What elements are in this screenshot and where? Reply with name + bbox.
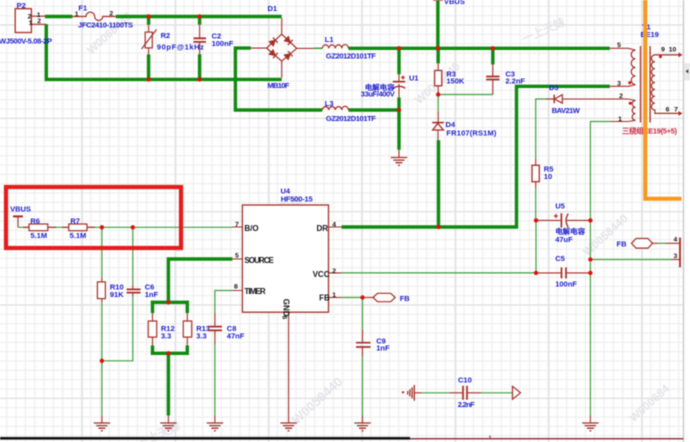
svg-text:33uF/400V: 33uF/400V: [361, 89, 395, 98]
svg-text:1nF: 1nF: [145, 290, 159, 299]
VBUS label top: [433, 0, 465, 6]
svg-text:7: 7: [674, 107, 678, 114]
svg-text:FB: FB: [617, 240, 628, 249]
wire: R3 top stub: [437, 48, 440, 63]
svg-text:4: 4: [332, 222, 336, 229]
wire: R12/R13 bottom bar: [151, 352, 189, 355]
wire: U1 bottom stub: [397, 98, 400, 111]
resistor R3: [435, 63, 465, 94]
junction: FB net / C9: [360, 295, 364, 299]
pin 1 stub: [610, 120, 636, 121]
wire: VBUS symbol stem: [17, 216, 19, 227]
wire: VCC run U4 to C5: [342, 272, 537, 274]
svg-text:P2: P2: [17, 1, 26, 10]
junction: neutral run / C2 bottom: [197, 77, 201, 81]
capacitor C9: [356, 330, 390, 356]
svg-text:HF500-15: HF500-15: [281, 195, 313, 204]
capacitor C2: [194, 25, 234, 55]
wire: VBUS power entry vertical: [436, 0, 439, 48]
svg-text:EE19: EE19: [641, 30, 659, 39]
junction: live rail / C2 top: [197, 14, 201, 18]
svg-text:47nF: 47nF: [227, 331, 245, 340]
wire: F1 to bridge top, with R2/C2 taps: [116, 15, 282, 18]
svg-text:5.1M: 5.1M: [70, 231, 87, 240]
svg-text:MB10F: MB10F: [267, 81, 289, 90]
wire: TIMER to C8: [215, 291, 233, 416]
ground for U4 GND pin: [280, 416, 296, 431]
pin 3 stub: [610, 85, 636, 87]
ground R12/R13: [160, 416, 176, 431]
svg-text:D1: D1: [268, 4, 278, 13]
svg-text:3: 3: [674, 253, 678, 260]
svg-text:9: 9: [661, 47, 665, 54]
svg-text:JFC2410-1100TS: JFC2410-1100TS: [78, 21, 133, 30]
fuse F1: [72, 4, 133, 30]
diode D4: [432, 111, 497, 140]
wire: C6 branch down and over to R10: [102, 227, 133, 360]
wire: R3 bottom to C3 bottom: [438, 94, 493, 96]
svg-text:1: 1: [332, 292, 336, 299]
junction: R10 / C6 bottoms: [100, 359, 104, 363]
resistor R6: [23, 216, 56, 240]
wire: VBUS sense R6 R7 row to U4 B/O: [18, 226, 232, 228]
junction: VCC net / U5 minus: [588, 218, 592, 222]
svg-text:R6: R6: [30, 216, 40, 225]
svg-text:5: 5: [235, 253, 239, 260]
junction: VCC net / FB out tee: [588, 257, 592, 261]
junction: VCC net / C5 right: [588, 271, 592, 275]
wire: R2 top stub: [147, 17, 150, 25]
arrow port right of C10: [513, 386, 521, 399]
resistor R13: [183, 313, 210, 346]
svg-text:VCC: VCC: [313, 270, 330, 279]
svg-text:U1: U1: [409, 74, 419, 83]
wire: C10 left segment: [422, 392, 450, 394]
resistor R12: [148, 313, 174, 346]
pin 5 stub: [610, 48, 636, 50]
FB net port at U4: [363, 293, 411, 303]
svg-text:47uF: 47uF: [555, 235, 573, 244]
wire: bridge left corner to DC minus vertical: [235, 48, 322, 110]
wire: C10 right segment to arrow port: [481, 392, 512, 394]
wire: bridge right to L1 (short): [313, 47, 322, 49]
junction: VBUS rail / R3 top: [436, 46, 440, 50]
svg-text:R7: R7: [70, 216, 80, 225]
secondary winding: [651, 55, 681, 114]
wire: C9 branch: [362, 298, 364, 416]
junction: R12 R13 bottom / ground run: [166, 351, 170, 355]
svg-text:7: 7: [235, 222, 239, 229]
wire: U1 top stub from VBUS rail: [397, 48, 400, 74]
wire: VBUS main rail L1 to T1 pin5: [348, 47, 609, 50]
inductor L1: [322, 35, 376, 61]
svg-text:GZ2012D101TF: GZ2012D101TF: [326, 114, 376, 123]
bottom black annotation line: [0, 437, 410, 440]
svg-text:3: 3: [617, 81, 621, 88]
resistor R7: [62, 216, 95, 240]
svg-text:FB: FB: [400, 294, 411, 303]
transformer T1: [610, 23, 683, 136]
electrolytic capacitor U5: [536, 202, 590, 245]
svg-text:90pF@1kHz: 90pF@1kHz: [157, 43, 204, 52]
svg-text:3.3: 3.3: [196, 331, 206, 340]
svg-text:6: 6: [281, 316, 288, 320]
ground R10/C6: [94, 416, 110, 431]
primary ground under U1: [391, 150, 407, 166]
svg-text:B/O: B/O: [244, 224, 258, 233]
capacitor C10: [449, 376, 481, 409]
ground C5/U5 branch: [582, 416, 598, 431]
wire: FB node U4 to port and C9: [342, 297, 363, 299]
junction: node R3 bottom / C3 / D4: [436, 92, 440, 96]
junction: DR net / D4 anode: [436, 225, 440, 229]
wire: C2 bottom stub: [198, 54, 201, 79]
svg-text:10: 10: [544, 172, 552, 181]
core lines: [641, 46, 651, 123]
ground C9: [354, 416, 370, 431]
svg-text:三绕组EE19(5+5): 三绕组EE19(5+5): [622, 126, 678, 136]
wire: D4 anode down to DR net: [437, 140, 440, 227]
svg-text:2: 2: [109, 10, 113, 17]
pin 2 stub: [628, 99, 635, 101]
bridge rectifier D1: [251, 4, 314, 90]
capacitor C3: [486, 64, 525, 94]
svg-text:100nF: 100nF: [212, 39, 234, 48]
orange marker over transformer core: [643, 0, 681, 199]
wire: AC live top rail P2 pin2 to F1: [45, 15, 72, 18]
wire: SOURCE to R12 R13 pair: [168, 259, 232, 302]
wire: AC neutral bottom run P2 pin1 to bridge bottom: [46, 24, 281, 79]
IC U4 HF500-15: [232, 187, 341, 416]
junction: B/O net / C6: [131, 225, 135, 229]
svg-text:2.2nF: 2.2nF: [458, 400, 475, 409]
capacitor C5: [536, 254, 590, 288]
svg-text:1: 1: [618, 116, 622, 123]
capacitor C8: [208, 314, 245, 345]
junction: live rail / R2 top: [146, 14, 150, 18]
svg-text:100nF: 100nF: [555, 279, 577, 288]
wire: U5 left junction down to C5: [535, 220, 537, 273]
junction: VBUS rail / U1 top: [397, 46, 401, 50]
connector P2: [0, 1, 52, 45]
svg-text:GND: GND: [282, 299, 291, 317]
svg-text:L1: L1: [325, 35, 334, 44]
canvas right edge: [684, 0, 690, 442]
svg-text:2: 2: [332, 268, 336, 275]
svg-text:2: 2: [37, 18, 41, 25]
svg-text:TIMER: TIMER: [244, 287, 266, 296]
svg-text:DR: DR: [317, 224, 329, 233]
FB net port right side: [617, 239, 680, 249]
resistor R10: [97, 278, 124, 303]
svg-text:4: 4: [674, 237, 678, 244]
svg-text:D3: D3: [549, 83, 559, 92]
diode on bottom-left edge: [269, 50, 275, 56]
junction: VCC net / C5 left: [534, 271, 538, 275]
wire: T1 pin1 to VCC vertical: [590, 122, 609, 416]
svg-text:SOURCE: SOURCE: [244, 256, 274, 265]
wire: sense ground run: [167, 353, 170, 415]
VBUS power symbol in sense box: [10, 204, 31, 216]
junction: node L3 / U1 minus / ground: [397, 108, 401, 112]
wire: R12/R13 top bar: [151, 301, 189, 304]
wire: pin4 short green: [658, 242, 666, 244]
wire: R12 legs: [151, 301, 154, 355]
right edge connector pins 4 and 3: [672, 237, 681, 268]
svg-text:GZ2012D101TF: GZ2012D101TF: [326, 52, 376, 61]
wire: D3 cathode corner down to R5: [536, 99, 546, 159]
diode D3: [546, 83, 581, 115]
svg-text:FB: FB: [319, 293, 330, 302]
junction: VBUS rail / C3 top: [491, 46, 495, 50]
wire: L3 right to U1 bottom junction: [348, 108, 399, 111]
wire: U1 bottom junction down to primary ground: [397, 110, 400, 150]
red highlight rectangle: [6, 187, 181, 248]
svg-text:WJ500V-5.08-2P: WJ500V-5.08-2P: [0, 37, 52, 46]
svg-text:3.3: 3.3: [161, 331, 171, 340]
svg-text:91K: 91K: [110, 290, 124, 299]
svg-text:2.2nF: 2.2nF: [505, 77, 525, 86]
winding 1: [631, 50, 635, 84]
svg-text:10: 10: [669, 47, 677, 54]
ground C8: [207, 416, 223, 431]
svg-text:150K: 150K: [446, 77, 465, 86]
secondary pin arrows: [679, 53, 683, 58]
wire: R13 legs: [186, 301, 189, 355]
svg-text:1: 1: [29, 20, 33, 27]
resistor R5: [532, 159, 553, 188]
bottom sheet border red line: [410, 436, 684, 440]
capacitor C6: [127, 283, 159, 299]
junction: neutral run / R2 bottom: [146, 77, 150, 81]
wire: R5 bottom to U5 plus: [535, 188, 537, 220]
wire: R3 bottom junction to D4 cathode: [437, 95, 439, 112]
winding 2: [632, 101, 635, 121]
wire: FB out to right connector pin3: [590, 259, 671, 261]
junction: B/O net / R10: [100, 225, 104, 229]
polarity dots: [628, 81, 631, 84]
svg-text:2: 2: [619, 93, 623, 100]
diode on top-left edge: [269, 40, 275, 46]
wire: R2 bottom stub: [147, 55, 150, 80]
wire: C2 top stub: [198, 17, 201, 25]
varistor R2: [142, 25, 205, 55]
wire: R10 branch down: [101, 227, 103, 415]
svg-text:8: 8: [234, 284, 238, 291]
svg-text:BAV21W: BAV21W: [552, 106, 581, 115]
svg-text:U5: U5: [555, 202, 565, 211]
svg-text:C10: C10: [458, 376, 472, 385]
wire: T1 pin2 to D3 anode (red pin run): [562, 98, 628, 100]
svg-text:VBUS: VBUS: [444, 0, 465, 6]
svg-text:5: 5: [617, 42, 621, 49]
diode on top-right edge: [284, 36, 290, 42]
inductor L3: [322, 99, 376, 123]
junction: D3-R5 net / U5 plus: [534, 218, 538, 222]
electrolytic capacitor U1: [361, 74, 419, 99]
svg-text:1: 1: [75, 11, 79, 18]
svg-text:C5: C5: [555, 254, 565, 263]
diode on bottom-right edge: [284, 54, 290, 60]
svg-text:FR107(RS1M): FR107(RS1M): [446, 129, 497, 138]
svg-text:6: 6: [666, 107, 670, 114]
svg-text:VBUS: VBUS: [10, 204, 31, 213]
svg-text:F1: F1: [78, 4, 87, 13]
svg-text:5.1M: 5.1M: [30, 231, 47, 240]
wire: DR net U4 to T1 pin3: [342, 86, 610, 227]
wire: C3 top stub: [491, 48, 494, 64]
svg-text:L3: L3: [325, 99, 334, 108]
earth symbol C10 left: [402, 385, 422, 401]
svg-text:R2: R2: [161, 31, 171, 40]
svg-text:1nF: 1nF: [376, 344, 390, 353]
junction: SOURCE net / R12 R13 top: [166, 300, 170, 304]
